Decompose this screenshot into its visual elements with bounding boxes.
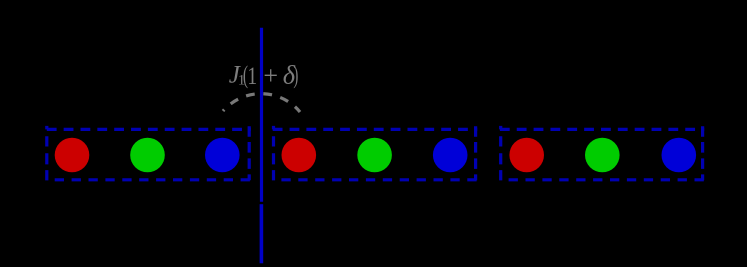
svg-text:1: 1 <box>247 62 257 90</box>
svg-text:+: + <box>263 61 278 90</box>
svg-text:): ) <box>293 62 298 89</box>
